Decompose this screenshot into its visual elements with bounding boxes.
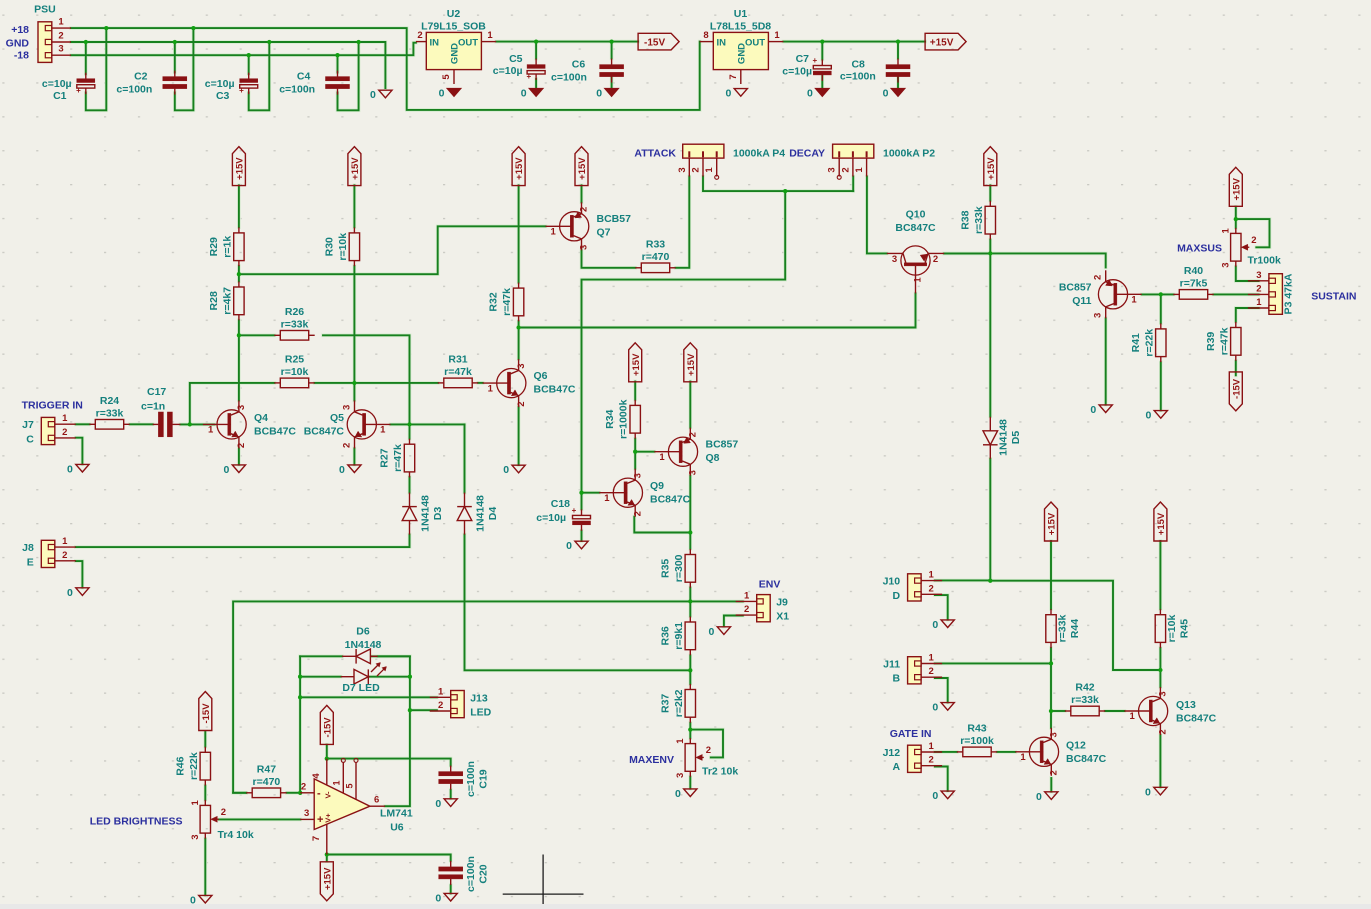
- svg-text:Q6: Q6: [534, 370, 548, 382]
- svg-text:c=10µ: c=10µ: [42, 78, 72, 90]
- svg-text:J12: J12: [883, 747, 901, 759]
- ground (Q12): [1036, 791, 1058, 803]
- svg-text:GND: GND: [450, 43, 461, 64]
- ground (J11 pin2): [932, 702, 954, 714]
- resistor R25: [274, 353, 314, 387]
- svg-text:1000kA P4: 1000kA P4: [733, 148, 785, 160]
- svg-text:GND: GND: [737, 43, 748, 64]
- svg-text:D6: D6: [356, 626, 370, 638]
- svg-text:R28: R28: [208, 291, 220, 310]
- capacitor C17: [153, 412, 181, 437]
- svg-text:r=9k1: r=9k1: [673, 622, 685, 650]
- svg-text:1: 1: [380, 425, 386, 436]
- svg-text:+15V: +15V: [322, 867, 333, 890]
- svg-text:D5: D5: [1010, 431, 1022, 445]
- ground (C20): [435, 892, 457, 904]
- resistor R39: [1205, 322, 1241, 361]
- svg-text:2: 2: [744, 604, 749, 615]
- svg-text:0: 0: [932, 702, 938, 714]
- diode D5: [983, 417, 998, 459]
- resistor R37: [659, 684, 695, 723]
- svg-text:+15V: +15V: [577, 157, 588, 180]
- IC U1 L78L15_5D8 voltage regulator: [700, 8, 784, 84]
- connector P3 (SUSTAIN pot): [1248, 270, 1295, 315]
- svg-text:C: C: [26, 433, 34, 445]
- svg-text:2: 2: [691, 167, 702, 172]
- supply flag +15V: [629, 343, 642, 382]
- capacitor C6: [600, 59, 624, 83]
- svg-text:Q9: Q9: [650, 480, 664, 492]
- trimmer Tr4: [190, 800, 226, 840]
- svg-text:c=10µ: c=10µ: [536, 512, 566, 524]
- svg-text:r=22k: r=22k: [188, 752, 200, 780]
- ground (J9 pin2): [709, 626, 731, 638]
- svg-text:TRIGGER IN: TRIGGER IN: [22, 400, 83, 412]
- supply flag -15V: [1229, 372, 1242, 411]
- svg-text:ENV: ENV: [759, 578, 781, 590]
- ground (Tr4): [190, 894, 212, 906]
- resistor R29: [208, 227, 244, 266]
- svg-text:1: 1: [332, 780, 342, 785]
- svg-text:-15V: -15V: [644, 37, 665, 48]
- svg-text:c=100n: c=100n: [840, 71, 876, 83]
- svg-text:+15V: +15V: [686, 353, 697, 376]
- svg-text:R46: R46: [174, 756, 186, 775]
- svg-text:R45: R45: [1179, 619, 1191, 638]
- svg-text:U1: U1: [734, 8, 748, 20]
- svg-text:5: 5: [441, 74, 452, 80]
- svg-text:R35: R35: [659, 559, 671, 578]
- svg-text:0: 0: [67, 587, 73, 599]
- capacitor C3 (polarized): [239, 73, 258, 96]
- svg-text:0: 0: [67, 463, 73, 475]
- ground (Q11): [1090, 404, 1112, 416]
- svg-text:1: 1: [488, 383, 494, 394]
- ground (C7): [807, 88, 829, 100]
- svg-text:7: 7: [311, 836, 322, 841]
- svg-text:+15V: +15V: [930, 37, 954, 48]
- capacitor C18 (polarized): [572, 506, 591, 531]
- svg-text:4: 4: [311, 773, 322, 779]
- svg-text:1: 1: [774, 30, 780, 41]
- svg-text:1: 1: [928, 570, 934, 581]
- svg-text:c=10µ: c=10µ: [782, 65, 812, 77]
- svg-text:+18: +18: [11, 24, 29, 36]
- ground (J12 pin2): [932, 790, 954, 802]
- svg-text:LED BRIGHTNESS: LED BRIGHTNESS: [90, 816, 183, 828]
- op-amp U6 LM741: [300, 758, 385, 854]
- svg-text:Q8: Q8: [706, 452, 720, 464]
- svg-text:L78L15_5D8: L78L15_5D8: [710, 20, 771, 32]
- supply flag +15V: [232, 147, 245, 186]
- svg-text:R34: R34: [604, 409, 616, 428]
- supply flag +15V: [348, 147, 361, 186]
- svg-text:r=22k: r=22k: [1143, 329, 1155, 357]
- svg-text:C20: C20: [477, 864, 489, 883]
- svg-text:SUSTAIN: SUSTAIN: [1311, 291, 1356, 303]
- svg-text:1: 1: [744, 590, 750, 601]
- svg-text:3: 3: [1158, 691, 1169, 696]
- svg-text:J10: J10: [883, 576, 901, 588]
- svg-text:BC857: BC857: [1059, 282, 1092, 294]
- resistor R26: [274, 306, 314, 340]
- svg-text:1: 1: [190, 800, 201, 806]
- svg-text:C18: C18: [551, 498, 570, 510]
- svg-text:R26: R26: [285, 306, 304, 318]
- svg-text:R36: R36: [659, 626, 671, 645]
- svg-text:R27: R27: [379, 448, 391, 467]
- svg-text:2: 2: [840, 167, 851, 172]
- svg-text:C2: C2: [134, 70, 148, 82]
- svg-text:R38: R38: [959, 210, 971, 229]
- svg-text:c=100n: c=100n: [465, 761, 477, 797]
- svg-text:D3: D3: [432, 507, 444, 521]
- resistor R42: [1065, 682, 1105, 716]
- svg-text:+: +: [572, 506, 577, 515]
- svg-text:3: 3: [304, 808, 309, 819]
- svg-text:2: 2: [928, 583, 933, 594]
- svg-text:0: 0: [339, 464, 345, 476]
- svg-text:D7 LED: D7 LED: [342, 682, 380, 694]
- svg-text:BC847C: BC847C: [895, 222, 936, 234]
- diode D4: [457, 493, 472, 535]
- svg-text:6: 6: [374, 795, 379, 806]
- transistor Q9 (BC847C NPN): [599, 469, 643, 517]
- resistor R32: [488, 283, 524, 322]
- svg-text:C7: C7: [796, 53, 810, 65]
- supply flag -15V: [320, 705, 333, 744]
- svg-text:-15V: -15V: [1231, 378, 1242, 399]
- svg-text:Q13: Q13: [1176, 699, 1196, 711]
- svg-text:+15V: +15V: [1156, 512, 1167, 535]
- resistor R27: [379, 439, 415, 478]
- supply flag +15V: [984, 147, 997, 186]
- svg-text:1: 1: [487, 30, 493, 41]
- svg-text:r=47k: r=47k: [392, 444, 404, 472]
- svg-text:3: 3: [1220, 262, 1231, 267]
- svg-text:3: 3: [892, 254, 897, 265]
- capacitor C8: [886, 59, 910, 83]
- transistor Q13 (BC847C NPN): [1124, 687, 1168, 735]
- supply flag +15V: [925, 33, 966, 50]
- svg-text:7: 7: [728, 74, 739, 79]
- resistor R30: [323, 227, 359, 266]
- svg-text:c=10µ: c=10µ: [205, 78, 235, 90]
- ground (U2 pin5): [439, 88, 461, 100]
- svg-text:A: A: [893, 761, 901, 773]
- svg-text:3: 3: [675, 773, 686, 778]
- svg-text:R44: R44: [1069, 619, 1081, 638]
- svg-text:1: 1: [604, 493, 610, 504]
- ground (C5): [521, 88, 543, 100]
- ground (C6): [596, 88, 618, 100]
- capacitor C7 (polarized): [812, 56, 831, 81]
- svg-text:r=33k: r=33k: [281, 318, 309, 330]
- svg-text:C3: C3: [216, 90, 230, 102]
- svg-text:-15V: -15V: [322, 717, 333, 738]
- svg-text:r=1k: r=1k: [221, 236, 233, 258]
- resistor R33: [635, 238, 675, 272]
- svg-text:BCB47C: BCB47C: [254, 426, 296, 438]
- svg-text:1N4148: 1N4148: [419, 495, 431, 532]
- supply flag -15V: [638, 33, 679, 50]
- svg-text:r=47k: r=47k: [501, 288, 513, 316]
- P2 n.c. pin circle: [837, 175, 841, 179]
- resistor R45: [1155, 609, 1190, 648]
- svg-text:1: 1: [928, 741, 934, 752]
- svg-text:Tr2 10k: Tr2 10k: [702, 766, 738, 778]
- transistor Q11 (BC857 PNP): [1093, 270, 1142, 318]
- svg-text:C5: C5: [509, 53, 523, 65]
- connector J7: [22, 413, 76, 445]
- svg-text:E: E: [27, 556, 34, 568]
- svg-text:1: 1: [1131, 295, 1137, 306]
- svg-text:2: 2: [62, 427, 67, 438]
- svg-text:2: 2: [688, 432, 699, 437]
- connector J10: [883, 570, 943, 602]
- svg-text:MAXENV: MAXENV: [629, 754, 674, 766]
- svg-text:GATE IN: GATE IN: [890, 728, 932, 740]
- svg-text:0: 0: [1090, 404, 1096, 416]
- svg-text:U6: U6: [390, 822, 404, 834]
- svg-text:r=7k5: r=7k5: [1180, 277, 1208, 289]
- svg-text:2: 2: [1158, 729, 1169, 734]
- svg-text:2: 2: [579, 207, 590, 212]
- ground (U1 pin7): [725, 88, 747, 100]
- svg-text:2: 2: [933, 254, 938, 265]
- svg-text:1: 1: [438, 686, 444, 697]
- svg-text:3: 3: [341, 405, 352, 410]
- svg-text:B: B: [893, 673, 901, 685]
- svg-text:r=33k: r=33k: [1057, 615, 1069, 643]
- svg-text:3: 3: [827, 167, 838, 172]
- svg-text:c=1n: c=1n: [141, 401, 165, 413]
- svg-text:3: 3: [236, 405, 247, 410]
- transistor Q12 (BC847C NPN): [1015, 728, 1059, 776]
- svg-text:BC847C: BC847C: [650, 494, 691, 506]
- svg-text:R40: R40: [1184, 265, 1203, 277]
- svg-text:+15V: +15V: [631, 353, 642, 376]
- svg-text:C19: C19: [477, 769, 489, 788]
- transistor Q4 (BC847C NPN): [203, 400, 247, 448]
- svg-text:J8: J8: [22, 542, 34, 554]
- svg-text:1: 1: [1020, 752, 1026, 763]
- svg-text:1: 1: [913, 277, 924, 283]
- svg-text:r=4k7: r=4k7: [221, 287, 233, 315]
- ground (GND rail): [370, 89, 392, 101]
- svg-text:1N4148: 1N4148: [474, 495, 486, 532]
- ground (J10 pin2): [932, 619, 954, 631]
- transistor Q6 (BC847C NPN): [483, 359, 527, 407]
- svg-text:2: 2: [706, 745, 711, 756]
- resistor R38: [959, 201, 995, 240]
- supply flag +15V: [320, 862, 333, 901]
- svg-text:r=100k: r=100k: [960, 735, 994, 747]
- P4 n.c. pin circle: [715, 175, 719, 179]
- svg-text:3: 3: [632, 473, 643, 478]
- resistor R34: [604, 399, 640, 439]
- ground (J8 pin2): [67, 587, 89, 599]
- resistor R31: [438, 353, 478, 387]
- svg-text:2: 2: [1251, 235, 1256, 246]
- ground (Q5 emitter): [339, 464, 361, 476]
- svg-text:Tr100k: Tr100k: [1248, 255, 1281, 267]
- svg-text:3: 3: [516, 363, 527, 368]
- svg-text:0: 0: [435, 892, 441, 904]
- svg-text:1: 1: [1220, 228, 1231, 234]
- svg-text:1: 1: [208, 425, 214, 436]
- svg-text:+: +: [526, 72, 531, 81]
- svg-text:2: 2: [62, 550, 67, 561]
- transistor Q7 (BC857 PNP): [546, 202, 590, 250]
- svg-text:-15V: -15V: [201, 703, 212, 724]
- svg-text:2: 2: [928, 755, 933, 766]
- svg-text:r=33k: r=33k: [973, 206, 985, 234]
- capacitor C4: [326, 71, 350, 95]
- svg-text:BC847C: BC847C: [304, 426, 345, 438]
- svg-text:J9: J9: [776, 596, 788, 608]
- svg-text:c=100n: c=100n: [465, 856, 477, 892]
- svg-text:r=33k: r=33k: [1071, 694, 1099, 706]
- svg-text:+15V: +15V: [1047, 512, 1058, 535]
- svg-text:0: 0: [725, 88, 731, 100]
- svg-text:C1: C1: [53, 90, 67, 102]
- svg-text:2: 2: [516, 401, 527, 406]
- supply flag +15V: [512, 147, 525, 186]
- svg-text:2: 2: [1093, 275, 1104, 280]
- supply flag +15V: [1045, 502, 1058, 541]
- capacitor C2: [163, 71, 187, 95]
- svg-text:0: 0: [932, 790, 938, 802]
- transistor Q5 (BC847C NPN): [341, 400, 390, 448]
- ground (C18): [566, 540, 588, 552]
- capacitor C19: [439, 766, 463, 790]
- svg-text:r=10k: r=10k: [281, 366, 309, 378]
- svg-text:PSU: PSU: [34, 4, 56, 16]
- svg-text:BC857: BC857: [706, 439, 739, 451]
- svg-text:0: 0: [709, 626, 715, 638]
- svg-text:V+: V+: [324, 813, 333, 823]
- svg-text:BCB57: BCB57: [597, 213, 632, 225]
- svg-text:1: 1: [58, 17, 64, 28]
- svg-text:r=33k: r=33k: [96, 407, 124, 419]
- svg-text:+15V: +15V: [514, 157, 525, 180]
- transistor Q8 (BC857 PNP): [654, 428, 698, 476]
- resistor R43: [957, 722, 997, 756]
- svg-text:2: 2: [1049, 770, 1060, 775]
- svg-text:BC847C: BC847C: [1176, 713, 1217, 725]
- svg-text:1000kA P2: 1000kA P2: [883, 148, 935, 160]
- svg-text:OUT: OUT: [458, 38, 478, 49]
- resistor R44: [1046, 609, 1081, 648]
- svg-text:OUT: OUT: [745, 38, 765, 49]
- resistor R46: [174, 747, 210, 786]
- svg-text:1N4148: 1N4148: [345, 639, 382, 651]
- capacitor C1 (polarized): [76, 73, 95, 96]
- svg-text:r=10k: r=10k: [1166, 615, 1178, 643]
- supply flag +15V: [1154, 502, 1167, 541]
- svg-text:+: +: [76, 86, 81, 95]
- svg-text:-: -: [317, 788, 321, 800]
- resistor R24: [89, 395, 129, 429]
- diode D3: [402, 493, 417, 535]
- svg-text:2: 2: [632, 511, 643, 516]
- svg-text:LED: LED: [470, 707, 491, 719]
- svg-text:0: 0: [807, 88, 813, 100]
- svg-text:L79L15_SOB: L79L15_SOB: [421, 20, 486, 32]
- svg-text:+: +: [239, 86, 244, 95]
- svg-text:2: 2: [301, 781, 306, 792]
- svg-text:J11: J11: [883, 659, 900, 671]
- svg-text:Q11: Q11: [1072, 295, 1091, 307]
- svg-text:0: 0: [435, 798, 441, 810]
- connector J9: [736, 590, 790, 622]
- diode D6: [342, 649, 378, 664]
- resistor R36: [659, 617, 695, 656]
- svg-text:1N4148: 1N4148: [998, 419, 1010, 456]
- svg-text:R29: R29: [208, 237, 220, 256]
- svg-text:MAXSUS: MAXSUS: [1177, 243, 1222, 255]
- svg-text:Q5: Q5: [330, 412, 344, 424]
- resistor R40: [1173, 265, 1213, 299]
- resistor R41: [1130, 323, 1166, 362]
- supply flag +15V: [1229, 167, 1242, 206]
- svg-text:C6: C6: [572, 58, 586, 70]
- ground (C8): [883, 88, 905, 100]
- svg-text:3: 3: [688, 470, 699, 475]
- svg-text:R42: R42: [1075, 682, 1094, 694]
- svg-text:2: 2: [1256, 283, 1261, 294]
- ground (R41): [1145, 410, 1167, 422]
- svg-text:r=47k: r=47k: [1218, 327, 1230, 355]
- ground (C19): [435, 798, 457, 810]
- ground (Q13): [1145, 786, 1167, 798]
- svg-text:1: 1: [551, 227, 557, 238]
- svg-text:0: 0: [932, 619, 938, 631]
- svg-text:8: 8: [703, 30, 708, 41]
- wire junction dots: [84, 26, 1238, 857]
- svg-text:0: 0: [521, 88, 527, 100]
- LED D7: [341, 663, 387, 685]
- svg-text:R39: R39: [1205, 332, 1217, 351]
- resistor R28: [208, 282, 244, 321]
- svg-text:0: 0: [370, 89, 376, 101]
- svg-text:0: 0: [883, 88, 889, 100]
- svg-text:2: 2: [58, 30, 63, 41]
- svg-text:1: 1: [704, 167, 715, 173]
- svg-text:0: 0: [566, 540, 572, 552]
- svg-text:X1: X1: [776, 611, 789, 623]
- ground (Q4 emitter): [224, 464, 246, 476]
- potentiometer P2: [827, 144, 874, 176]
- svg-text:+: +: [812, 56, 817, 65]
- capacitor C20: [439, 861, 463, 885]
- svg-text:C4: C4: [297, 70, 311, 82]
- supply flag +15V: [575, 147, 588, 186]
- svg-text:R30: R30: [323, 237, 335, 256]
- supply flag +15V: [684, 343, 697, 382]
- svg-text:1: 1: [62, 536, 68, 547]
- svg-text:r=470: r=470: [642, 251, 670, 263]
- svg-text:r=1000k: r=1000k: [618, 399, 630, 439]
- svg-text:Q12: Q12: [1066, 740, 1086, 752]
- svg-text:0: 0: [190, 894, 196, 904]
- capacitor C5 (polarized): [526, 59, 545, 82]
- trimmer Tr1: [1220, 228, 1256, 268]
- svg-text:0: 0: [1036, 791, 1042, 803]
- svg-text:2: 2: [438, 700, 443, 711]
- transistor Q10 (BC847C NPN, rotated): [887, 209, 944, 294]
